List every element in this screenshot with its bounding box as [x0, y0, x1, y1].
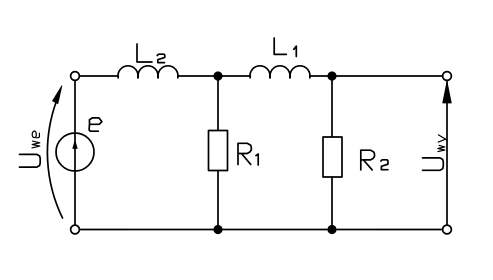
label Uwy	[423, 135, 448, 170]
node B top	[327, 71, 336, 80]
wire top from L1 to node B	[310, 75, 332, 77]
wire node A to R1	[217, 76, 219, 131]
node A bottom	[213, 225, 222, 234]
arrow Uwy	[443, 82, 452, 104]
wire top from node B to right terminal	[332, 75, 443, 77]
wire top from L2 to node A	[178, 75, 218, 77]
wire left branch	[74, 81, 76, 226]
terminal bottom-right	[443, 225, 452, 234]
wire top from node A to L1	[218, 75, 250, 77]
wire top from left terminal to L2	[80, 75, 119, 77]
arrow arc for Uwe	[47, 86, 62, 218]
label Uwe	[20, 131, 41, 167]
wire R1 to node A bottom	[217, 171, 219, 230]
label R1	[238, 143, 258, 165]
inductor L2	[118, 66, 178, 78]
label R2	[361, 150, 388, 170]
wire bottom	[80, 229, 443, 231]
label L2	[137, 44, 165, 63]
wire R2 to node B bottom	[331, 177, 333, 230]
node B bottom	[327, 225, 336, 234]
terminal top-left	[71, 72, 80, 81]
terminal top-right	[443, 72, 452, 81]
node A top	[213, 71, 222, 80]
label e	[89, 118, 102, 131]
terminal bottom-left	[71, 225, 80, 234]
wire right branch	[446, 81, 448, 226]
wire node B to R2	[331, 76, 333, 137]
resistor R1	[209, 131, 228, 171]
inductor L1	[250, 66, 310, 78]
resistor R2	[323, 137, 342, 177]
label L1	[274, 38, 296, 57]
voltage source e	[56, 133, 94, 171]
